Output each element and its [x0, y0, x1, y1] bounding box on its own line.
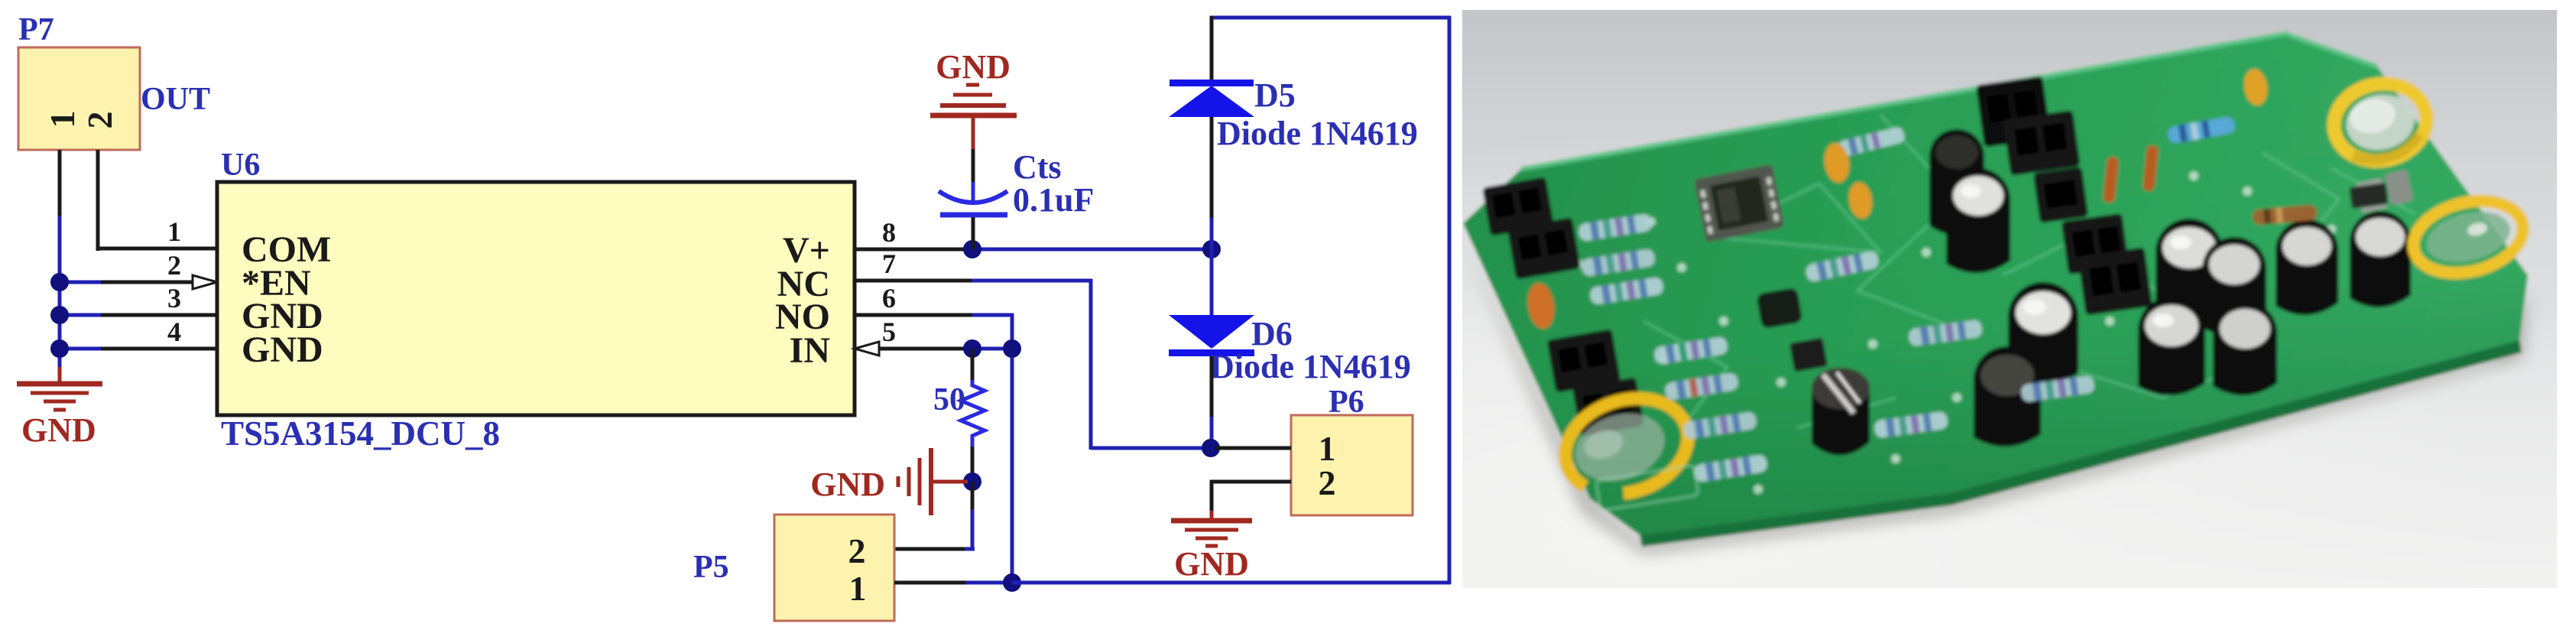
wire P5 pin1 blue segment — [966, 581, 1012, 585]
junction dot V+ net at capacitor — [963, 240, 981, 258]
wire U6 pin5 black segment — [879, 347, 966, 351]
wire U6 pin3 horizontal — [101, 313, 217, 317]
capacitor Cts bottom lead — [972, 217, 975, 249]
wire blue stub pin4 — [60, 347, 102, 351]
ground symbol P6 bars — [1171, 521, 1252, 546]
capacitor Cts top lead blue tip — [972, 182, 975, 203]
wire P7 pin1 vertical black segment — [58, 150, 62, 216]
wire blue stub pin2 — [60, 281, 102, 284]
gray SMD pair — [2355, 169, 2414, 213]
wire D6 to junction blue — [1210, 417, 1214, 448]
header block 5 — [1976, 76, 2052, 147]
svg-text:GND: GND — [1174, 545, 1249, 583]
connector P6 body — [1291, 415, 1413, 515]
svg-text:1: 1 — [43, 111, 82, 128]
svg-text:GND: GND — [242, 330, 323, 370]
svg-text:4: 4 — [167, 317, 181, 347]
wire P6 pin2 black segment — [1210, 480, 1291, 484]
wire loop bottom edge — [1012, 581, 1451, 585]
svg-text:1: 1 — [1319, 429, 1336, 468]
small inductor — [1756, 287, 1802, 330]
resistor bottom lead black — [971, 447, 975, 482]
header block 7 — [2033, 167, 2089, 223]
svg-text:2: 2 — [167, 250, 181, 281]
wire NO net blue horizontal — [972, 313, 1014, 317]
IC U6 body — [217, 182, 855, 415]
yellow toroid ring 3 — [1552, 383, 1700, 509]
wire U6 pin2 horizontal — [101, 281, 194, 284]
svg-text:Cts: Cts — [1013, 148, 1062, 186]
ground symbol P6 stem red — [1210, 511, 1214, 521]
input arrow at U6 pin2 *EN — [193, 275, 217, 289]
svg-text:50: 50 — [933, 382, 965, 417]
wire U6 pin4 horizontal — [101, 347, 217, 351]
diode D6 triangle — [1169, 315, 1254, 349]
wire P7 pin1 vertical blue segment to ground — [58, 216, 62, 370]
ground symbol lower-left stem — [58, 367, 62, 383]
resistor 50 bottom lead — [971, 440, 975, 448]
wire U6 pin7 black segment — [855, 279, 972, 283]
wire P5 pin2 blue corner — [965, 547, 975, 551]
svg-text:U6: U6 — [221, 148, 260, 183]
wire V+ net blue segment to diode column — [972, 248, 1212, 252]
svg-text:TS5A3154_DCU_8: TS5A3154_DCU_8 — [221, 414, 500, 453]
wire NO net blue vertical — [1011, 313, 1014, 583]
PCB top edge highlight — [1521, 34, 2377, 169]
resistor 50 zigzag — [961, 380, 985, 440]
header block 2 — [1507, 217, 1582, 280]
yellow toroid ring 2 — [2406, 190, 2530, 284]
wire NC net blue vertical — [1089, 279, 1093, 450]
PCB board top surface — [1463, 34, 2528, 535]
wire U6 pin6 black segment — [855, 313, 972, 317]
junction dot P5 pin1 net — [1003, 573, 1021, 592]
silkscreen footprint rect — [1596, 465, 1699, 511]
header block 9 — [2078, 247, 2153, 315]
junction dot P7 net pin2 — [50, 273, 69, 291]
wire P6 pin2 down black — [1210, 480, 1214, 512]
wire U6 pin1 horizontal — [96, 247, 217, 251]
svg-text:7: 7 — [882, 248, 896, 279]
photo background — [1455, 2, 2565, 596]
svg-text:D5: D5 — [1254, 76, 1296, 114]
svg-text:GND: GND — [810, 466, 885, 503]
junction dot P6 pin1 net — [1202, 439, 1220, 457]
svg-text:P5: P5 — [693, 550, 729, 585]
connector P5 body — [774, 515, 894, 621]
svg-text:1: 1 — [849, 569, 867, 608]
connector P7 body — [18, 47, 140, 150]
wire P5 pin1 black segment — [894, 581, 966, 585]
junction dot IN net at NO column — [1003, 339, 1021, 358]
wire resistor node down black — [971, 482, 975, 511]
svg-text:0.1uF: 0.1uF — [1013, 181, 1094, 219]
header block 8 — [2062, 213, 2130, 274]
header block 3 — [1547, 329, 1621, 393]
wire blue stub pin3 — [60, 313, 102, 317]
wire NC net blue horizontal — [972, 279, 1092, 283]
header block 6 — [2003, 110, 2080, 176]
wire NC net blue to P6 junction — [1091, 447, 1211, 450]
svg-text:2: 2 — [848, 531, 866, 570]
yellow toroid ring 1 — [2327, 75, 2434, 169]
orange capacitors — [1525, 67, 2269, 330]
svg-text:5: 5 — [882, 317, 896, 347]
svg-text:Diode 1N4619: Diode 1N4619 — [1210, 348, 1411, 385]
wire loop top edge — [1210, 16, 1451, 20]
board shadow — [1463, 237, 2528, 554]
junction dot IN net at resistor — [963, 339, 981, 358]
junction dot P7 net pin4 — [50, 339, 69, 358]
svg-text:GND: GND — [21, 411, 96, 449]
solder pads — [1574, 148, 2336, 494]
wire D6 cathode lead black — [1210, 356, 1214, 418]
diode D5 triangle — [1169, 86, 1254, 117]
wire D5 anode lead black — [1210, 117, 1214, 219]
svg-text:2: 2 — [1319, 463, 1336, 502]
header block 4 — [1572, 377, 1644, 437]
svg-text:6: 6 — [882, 283, 896, 313]
ground symbol sideways bars — [898, 448, 931, 515]
svg-text:GND: GND — [936, 48, 1011, 86]
small chip right — [2349, 183, 2388, 209]
IC chip — [1694, 164, 1784, 242]
wire to P5 pin2 blue vertical — [971, 509, 975, 550]
svg-text:IN: IN — [790, 330, 831, 371]
svg-text:P7: P7 — [18, 12, 54, 47]
resistors — [1578, 116, 2318, 483]
wire IN net blue stub — [966, 347, 1012, 351]
PCB board bottom side edge — [1640, 340, 2522, 547]
capacitor Cts curved plate — [939, 191, 1007, 203]
svg-text:8: 8 — [882, 217, 896, 248]
wire U6 pin8 black segment — [855, 248, 966, 252]
junction dot V+ net at diode column — [1202, 240, 1221, 258]
junction dot resistor ground node — [963, 473, 981, 491]
header block 1 — [1482, 177, 1554, 236]
input arrow at U6 pin5 IN — [855, 342, 879, 356]
wire diode column top black — [1210, 16, 1214, 81]
svg-text:3: 3 — [167, 283, 181, 313]
wire P6 pin1 black segment — [1215, 447, 1291, 450]
wire P5 pin2 black segment — [894, 547, 965, 551]
silkscreen traces — [1643, 115, 2415, 428]
wire junction to D6 blue — [1210, 249, 1214, 317]
wire P7 pin2 vertical black segment — [96, 150, 100, 251]
svg-text:D6: D6 — [1251, 315, 1293, 352]
svg-text:Diode 1N4619: Diode 1N4619 — [1217, 115, 1418, 152]
resistor 50 top lead black — [971, 349, 975, 380]
svg-text:1: 1 — [167, 216, 181, 247]
svg-text:2: 2 — [80, 112, 119, 129]
ground symbol sideways stem — [933, 480, 968, 484]
small chip — [1789, 337, 1828, 372]
capacitor Cts straight plate — [940, 213, 1007, 218]
diode D6 cathode bar — [1169, 349, 1254, 356]
wire D5 to junction blue — [1210, 218, 1214, 249]
junction dot P7 net pin3 — [50, 306, 69, 324]
electrolytic capacitors — [1812, 129, 2411, 456]
ground symbol top bars (flipped) — [930, 85, 1017, 115]
svg-text:OUT: OUT — [141, 82, 210, 117]
diode D5 cathode bar — [1170, 80, 1254, 86]
ground symbol top stem red — [972, 115, 975, 151]
wire loop right edge — [1448, 16, 1452, 584]
ground symbol lower-left bars — [17, 384, 102, 410]
capacitor Cts top lead black — [972, 149, 975, 183]
